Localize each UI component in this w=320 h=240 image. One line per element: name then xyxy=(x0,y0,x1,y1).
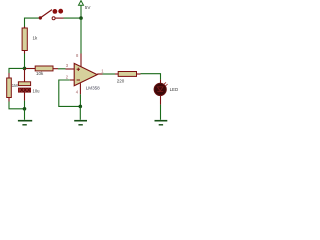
capacitor C1 (10u) top plate xyxy=(18,82,30,86)
op-amp U1 body xyxy=(74,63,97,85)
wire: J2 down to ground xyxy=(24,109,26,120)
svg-text:4: 4 xyxy=(76,90,79,95)
svg-text:LM358: LM358 xyxy=(86,86,100,91)
switch SW1 right terminal xyxy=(52,17,55,20)
switch SW1 left terminal xyxy=(39,16,42,19)
svg-text:1M: 1M xyxy=(12,83,18,88)
switch SW1 right pin xyxy=(55,17,63,19)
resistor R3 (1M) body xyxy=(7,78,12,98)
capacitor C1 top pin xyxy=(24,68,26,82)
op-amp + input marking xyxy=(77,68,80,71)
junction J2 xyxy=(23,107,27,111)
junction J1 xyxy=(23,67,27,71)
ground symbol G3 xyxy=(155,121,168,125)
resistor R1 pin stubs xyxy=(24,27,26,29)
resistor R2 (10k) left pin xyxy=(26,68,35,70)
resistor R4 right pin xyxy=(137,73,141,75)
LED D1 anode pin xyxy=(160,80,162,84)
wire: J1 left to R3 column xyxy=(9,68,25,73)
svg-text:8: 8 xyxy=(76,53,79,58)
svg-text:LED: LED xyxy=(170,87,179,92)
resistor R3 (1M) top pin xyxy=(8,73,10,78)
resistor R2 (10k) body xyxy=(35,66,53,71)
wire: pin 4 to junction J3 xyxy=(79,94,81,106)
capacitor C1 bottom pin xyxy=(24,92,26,100)
switch SW1 actuator dot 1 xyxy=(53,9,58,14)
wire: feedback pin 2 to bottom rail xyxy=(59,80,81,106)
op-amp U1 pin 2 stub xyxy=(70,79,75,81)
resistor R4 (220) body xyxy=(118,72,136,77)
svg-text:1k: 1k xyxy=(33,36,39,41)
wire: C1 to junction J2 xyxy=(24,101,26,109)
wire: J3 down to ground xyxy=(79,106,81,119)
ground symbol G1 xyxy=(18,121,32,125)
svg-text:220: 220 xyxy=(117,78,125,83)
power +5V symbol xyxy=(79,1,84,18)
wire: R1 bottom to junction J1 xyxy=(24,54,26,69)
op-amp U1 pin 8 stub xyxy=(80,54,82,67)
resistor R1 (1k) body xyxy=(22,28,27,51)
LED D1 body xyxy=(154,82,168,95)
wire: R3 bottom to junction J2 xyxy=(9,102,25,109)
svg-text:2: 2 xyxy=(66,74,69,79)
wire: switch left terminal to R1 top xyxy=(25,18,39,28)
switch SW1 actuator dot 2 xyxy=(58,9,63,14)
svg-text:10k: 10k xyxy=(36,71,44,76)
op-amp U1 pin 3 stub xyxy=(66,68,75,70)
svg-text:1: 1 xyxy=(101,69,104,74)
op-amp U1 pin 4 stub xyxy=(79,83,81,94)
switch SW1 lever xyxy=(40,10,52,18)
resistor R4 (220) left pin xyxy=(115,73,118,75)
capacitor C1 (10u) bottom plate (hatched) xyxy=(18,88,30,92)
ground symbol G2 xyxy=(74,121,87,125)
svg-text:5V: 5V xyxy=(85,5,92,10)
wire: 5V rail down to op-amp V+ xyxy=(80,18,82,53)
junction J3 xyxy=(79,105,83,109)
wire: R4 to LED xyxy=(141,74,161,80)
wire: R2 to op-amp pin 3 xyxy=(58,68,66,70)
op-amp U1 pin 1 (output) stub xyxy=(97,73,102,75)
svg-text:3: 3 xyxy=(66,63,69,68)
svg-text:10u: 10u xyxy=(33,88,41,93)
junction: 5V rail / switch xyxy=(79,16,83,20)
op-amp - input marking xyxy=(77,79,80,81)
resistor R3 bottom pin xyxy=(8,98,10,102)
wire: LED to ground xyxy=(160,105,162,120)
resistor R2 right pin xyxy=(53,68,58,70)
wire: switch to 5V junction xyxy=(64,17,82,19)
wire: pin 1 to R4 xyxy=(103,73,116,75)
LED D1 cathode pin xyxy=(160,96,162,105)
